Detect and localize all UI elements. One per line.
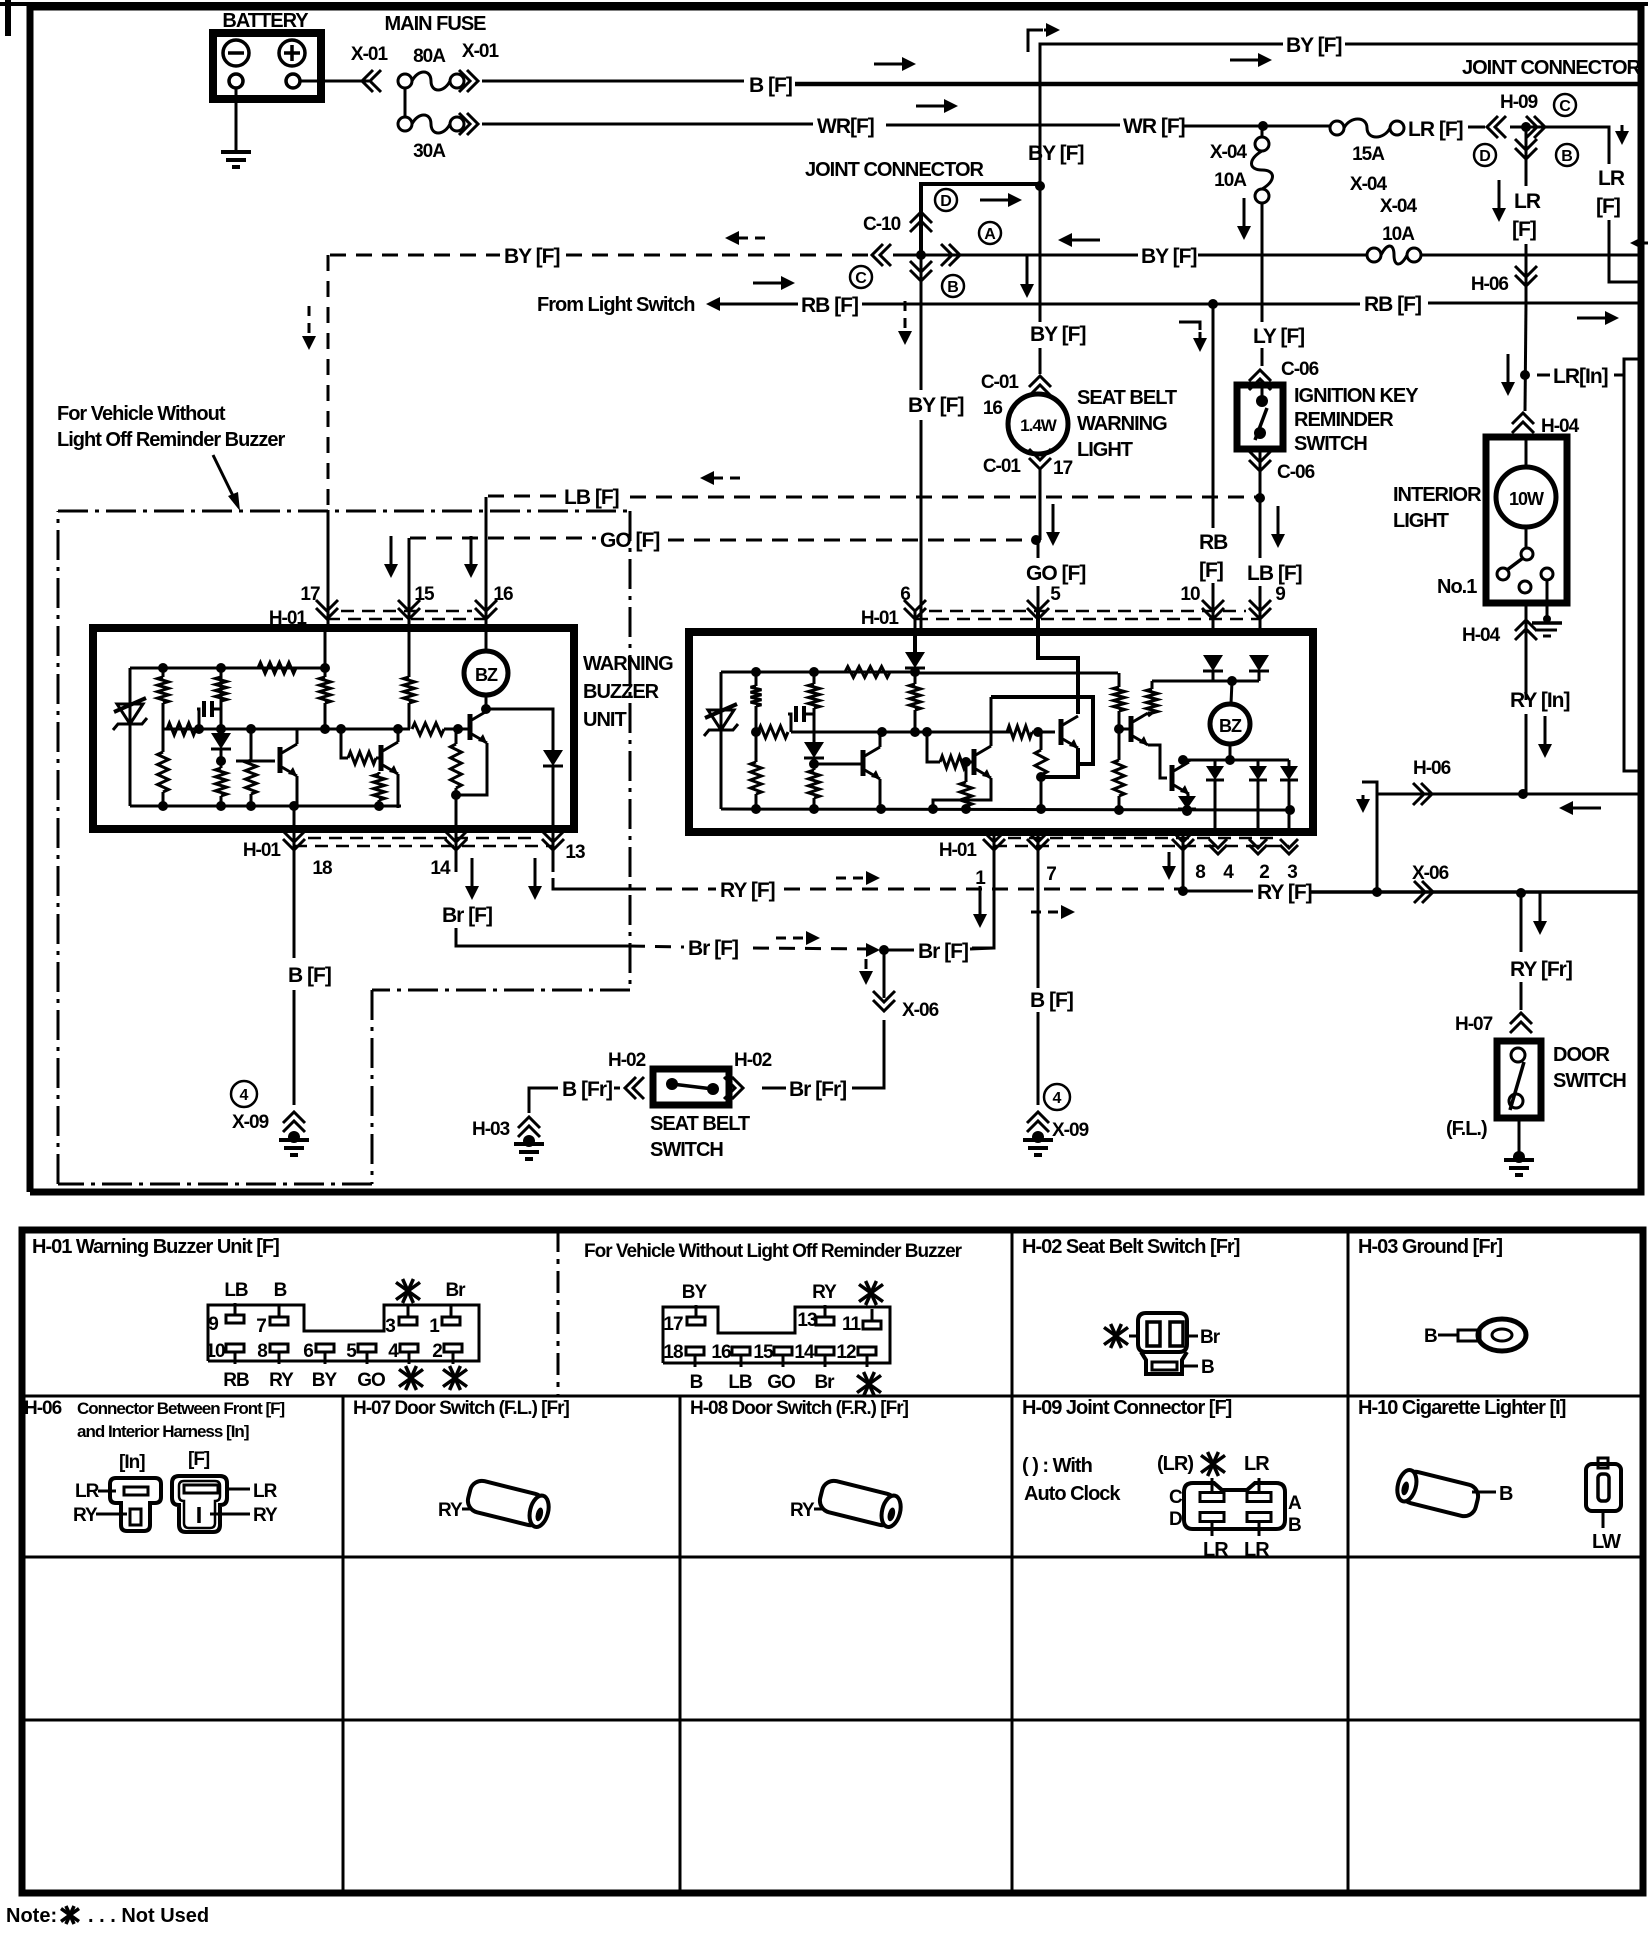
H-09 connector body [1184, 1483, 1285, 1529]
svg-text:X-01: X-01 [462, 41, 500, 62]
H-02 star [1104, 1324, 1140, 1348]
svg-text:BY [F]: BY [F] [1286, 34, 1341, 57]
arrow from light switch [706, 297, 760, 311]
svg-text:BZ: BZ [475, 665, 498, 685]
label H-01 bottom-right [939, 840, 978, 861]
label WARNING BUZZER UNIT [583, 653, 673, 731]
resistor R17 [809, 672, 820, 708]
svg-text:H-01: H-01 [269, 608, 308, 629]
wire qd base [1119, 728, 1129, 731]
H-01 pin2 [432, 1341, 467, 1390]
label IGNITION KEY REMINDER SWITCH [1294, 385, 1419, 455]
circled D (C-10) [935, 189, 957, 211]
diode D4 [804, 708, 824, 769]
wire BY main vertical [1039, 44, 1042, 374]
table grid [22, 1230, 1643, 1893]
svg-text:LR: LR [1203, 1539, 1229, 1561]
variant pin17 [663, 1282, 707, 1335]
svg-text:Br [Fr]: Br [Fr] [789, 1078, 846, 1101]
circled D (H-09) [1474, 144, 1496, 166]
svg-text:RY [F]: RY [F] [720, 879, 775, 902]
connector H-06 chevron right [1413, 783, 1432, 805]
svg-text:D: D [1169, 1509, 1182, 1530]
label H-02 left [608, 1050, 646, 1071]
label DOOR SWITCH [1553, 1044, 1626, 1092]
svg-text:SEAT BELT: SEAT BELT [1077, 387, 1177, 409]
connector H-07 [1455, 1013, 1532, 1035]
svg-text:H-07 Door Switch (F.L.) [Fr]: H-07 Door Switch (F.L.) [Fr] [353, 1398, 570, 1419]
svg-text:RB [F]: RB [F] [801, 294, 858, 317]
transistor QD [1131, 713, 1152, 745]
wire H-06 horizontal [1362, 782, 1641, 799]
table title H-06 [24, 1398, 285, 1441]
svg-text:H-01: H-01 [939, 840, 978, 861]
svg-text:BY [F]: BY [F] [1030, 323, 1085, 346]
wire qc base [1032, 731, 1055, 734]
svg-text:BY: BY [312, 1370, 338, 1391]
wire pin8 [1178, 832, 1188, 896]
resistor R25 [1147, 681, 1158, 716]
connector X-06 chevron [1414, 881, 1433, 903]
wire pin15 interior [404, 628, 415, 729]
wire BY to fuse2 [1198, 254, 1367, 257]
wire pin7 B [1030, 989, 1073, 1105]
svg-text:30A: 30A [413, 141, 446, 162]
svg-text:H-06: H-06 [24, 1398, 62, 1419]
wire C-10 down [920, 255, 923, 628]
svg-text:4: 4 [388, 1341, 399, 1362]
variant pin15 [753, 1342, 795, 1393]
svg-text:16: 16 [983, 398, 1003, 419]
connector H-09 right chevron [1526, 116, 1545, 138]
resistor R4 [167, 723, 196, 735]
svg-text:6: 6 [303, 1341, 313, 1362]
wire H-06 to X-06 link [1376, 794, 1379, 892]
svg-text:Note:: Note: [6, 1905, 57, 1927]
variant pin18 [663, 1342, 704, 1393]
svg-text:9: 9 [208, 1314, 218, 1335]
svg-text:7: 7 [1046, 864, 1056, 885]
H-01 pin4 [388, 1341, 423, 1390]
wire WR[F] mid [886, 115, 1185, 138]
wire Br to pin1 [888, 940, 994, 963]
table title H-08 [690, 1398, 909, 1419]
wire pin13 to RY [553, 878, 630, 889]
label No.1 [1437, 576, 1477, 598]
svg-text:No.1: No.1 [1437, 576, 1477, 598]
transistor QB [928, 697, 991, 814]
svg-text:H-07: H-07 [1455, 1014, 1493, 1035]
transistor QF [1172, 762, 1189, 794]
variant connector outline [663, 1307, 890, 1363]
svg-text:RY: RY [269, 1370, 294, 1391]
H-06 label In [119, 1452, 145, 1473]
svg-text:(LR): (LR) [1157, 1453, 1193, 1475]
H-02 label B [1182, 1357, 1214, 1378]
svg-text:For Vehicle Without Light Off: For Vehicle Without Light Off Reminder B… [584, 1241, 963, 1262]
connector H-06 mid [1471, 266, 1537, 295]
table title H-03 [1358, 1236, 1502, 1258]
ground (battery) [221, 152, 251, 167]
svg-text:A: A [1288, 1493, 1302, 1514]
wire WR[F] left [482, 115, 874, 138]
interior light internal ground [1532, 580, 1562, 636]
flow arrow Br dashed [776, 931, 820, 945]
bz bottom node right [1225, 744, 1235, 765]
svg-text:1: 1 [429, 1316, 440, 1337]
svg-text:WR[F]: WR[F] [817, 115, 874, 138]
label pin 10 [1180, 584, 1200, 605]
svg-text:X-01: X-01 [351, 44, 389, 65]
wire GO[F] dashed [410, 529, 1036, 552]
resistor R21 [1007, 726, 1043, 738]
label 14 [430, 858, 451, 879]
wire RB down [1212, 304, 1215, 610]
flow arrow RY dashed [836, 871, 880, 885]
table title H-10 [1358, 1397, 1566, 1419]
pin6 resistor R13 [910, 668, 921, 733]
svg-text:3: 3 [1287, 862, 1297, 883]
connector chevron C-10 up [910, 212, 932, 232]
flow arrow LR right [1615, 125, 1629, 145]
joint connector C-10 frame [921, 181, 1045, 255]
capacitor C2 [788, 706, 814, 732]
svg-text:Auto Clock: Auto Clock [1024, 1483, 1121, 1505]
label H-09 [1500, 92, 1538, 113]
resistor R20 [960, 762, 972, 814]
wire fuse junction [404, 88, 407, 117]
top rail (left) [130, 663, 326, 673]
H-06 connector F [172, 1476, 227, 1532]
fuse X-04 10A vertical [1210, 126, 1273, 203]
wire Br[F] dashed [629, 937, 873, 960]
svg-text:and Interior Harness [In]: and Interior Harness [In] [77, 1422, 249, 1441]
warning buzzer unit box (right) [689, 632, 1313, 832]
H-01 pin3 [385, 1279, 420, 1337]
flow arrow BY down pin6 [898, 301, 912, 345]
svg-text:H-04: H-04 [1462, 625, 1501, 646]
svg-text:H-02 Seat Belt Switch [Fr]: H-02 Seat Belt Switch [Fr] [1022, 1236, 1240, 1258]
wire pin15 drop [408, 538, 411, 628]
svg-text:RY: RY [790, 1500, 815, 1521]
flow arrow above 16 [464, 536, 478, 578]
resistor R6 [216, 761, 227, 808]
flow arrow RB [753, 276, 795, 290]
svg-text:X-06: X-06 [902, 1000, 939, 1021]
connector H-02 chevron left [625, 1077, 644, 1099]
wire B Fr [529, 1078, 620, 1113]
variant pin16 [711, 1342, 752, 1393]
table title H-02 [1022, 1236, 1240, 1258]
wire pin1 [972, 832, 994, 948]
circled 4 right [1044, 1084, 1070, 1110]
flow arrow X-04 down [1237, 198, 1251, 240]
svg-text:LY [F]: LY [F] [1253, 325, 1304, 348]
wire pin13 down [552, 829, 555, 872]
svg-text:15: 15 [414, 584, 435, 605]
connector X-06 (Br) [873, 991, 939, 1021]
label INTERIOR LIGHT [1393, 484, 1482, 532]
svg-text:C-01: C-01 [983, 456, 1022, 477]
seat belt switch box [653, 1069, 729, 1105]
svg-text:5: 5 [1050, 584, 1061, 605]
svg-text:17: 17 [1053, 458, 1073, 479]
H-07 plug [438, 1478, 552, 1529]
flow arrow RY Fr [1533, 893, 1547, 935]
wire Br Fr [762, 1020, 884, 1101]
circled C (H-09) [1554, 94, 1576, 116]
flow arrow BY mid [1058, 233, 1100, 247]
label SEAT BELT SWITCH [650, 1113, 750, 1161]
svg-text:3: 3 [385, 1316, 395, 1337]
diode D7 pin9 [1249, 655, 1269, 681]
svg-text:INTERIOR: INTERIOR [1393, 484, 1482, 506]
svg-text:2: 2 [1259, 862, 1269, 883]
label B[F] left [288, 964, 331, 987]
svg-text:[F]: [F] [1596, 195, 1620, 218]
label 16 (C-01) [983, 398, 1003, 419]
svg-text:C-01: C-01 [981, 372, 1020, 393]
label (F.L.) [1446, 1118, 1487, 1140]
label MAIN FUSE [385, 13, 487, 35]
connector chevron A right [941, 244, 960, 266]
wire LR[F] right branch [1545, 127, 1641, 282]
label LR [F] mid [1512, 190, 1541, 241]
label BY[F] under B [1028, 142, 1083, 165]
svg-text:15A: 15A [1352, 144, 1385, 165]
diode D10 [1280, 760, 1298, 832]
label Br[F] left [442, 904, 492, 927]
flow arrow Br X-06 [859, 959, 873, 985]
connector X-09 left [283, 1112, 305, 1132]
node line (left) [163, 724, 410, 734]
H-06 In labels [73, 1481, 127, 1526]
warning buzzer unit box (left) [93, 628, 574, 829]
wire bz to diode [486, 709, 553, 750]
label X-09 left [232, 1112, 269, 1133]
H-02 label Br [1187, 1327, 1221, 1348]
wire seat belt light down [1031, 468, 1041, 545]
svg-text:LR: LR [1598, 167, 1625, 190]
svg-text:JOINT CONNECTOR: JOINT CONNECTOR [1462, 57, 1642, 79]
buzzer BZ (right) [1210, 681, 1250, 744]
label H-06 right [1413, 758, 1451, 779]
svg-text:13: 13 [565, 842, 585, 863]
svg-text:SWITCH: SWITCH [1294, 433, 1367, 455]
svg-text:X-09: X-09 [232, 1112, 269, 1133]
label H-01 top-right [861, 608, 900, 629]
svg-text:UNIT: UNIT [583, 709, 626, 731]
connector H-09 left chevron [1487, 116, 1506, 138]
H-01 pin9 [208, 1280, 248, 1335]
svg-text:Br [F]: Br [F] [688, 937, 738, 960]
label GO[F] [1026, 562, 1085, 585]
label H-01 top-left [269, 608, 308, 629]
label RB[F] vert [1199, 531, 1228, 582]
connector X-01 left [351, 44, 389, 92]
wire RY solid right [1183, 881, 1377, 904]
H-06 label F [188, 1449, 210, 1470]
wire pin7 down [1037, 832, 1040, 988]
top rail (right) [721, 667, 1118, 678]
svg-text:LB: LB [224, 1280, 248, 1301]
label RY[Fr] [1510, 958, 1572, 981]
wire RY Fr down [1520, 893, 1523, 1010]
H-08 plug [790, 1478, 904, 1529]
resistor R14 [751, 672, 762, 737]
node line (right) [791, 727, 1010, 737]
svg-text:14: 14 [430, 858, 451, 879]
connector H-03 chevron [518, 1117, 540, 1137]
label 18 [312, 858, 332, 879]
svg-text:B [F]: B [F] [1030, 989, 1073, 1012]
svg-text:Br [F]: Br [F] [918, 940, 968, 963]
wire battery positive [300, 80, 369, 83]
H-01 pin5 [346, 1341, 385, 1391]
svg-text:10: 10 [1180, 584, 1200, 605]
variant pin13 [797, 1282, 837, 1331]
interior light bulb [1496, 437, 1556, 527]
wire RY In down [1525, 714, 1528, 794]
svg-text:2: 2 [432, 1341, 442, 1362]
transistor Q2 [376, 724, 403, 808]
circled B (C-10) [942, 275, 964, 297]
capacitor C1 [197, 701, 221, 729]
connector C-01 top [981, 372, 1051, 396]
svg-text:H-01: H-01 [861, 608, 900, 629]
wire RB[F] [760, 293, 1641, 317]
svg-text:C-10: C-10 [863, 214, 901, 235]
svg-text:LW: LW [1592, 1531, 1621, 1553]
label pin 6 [900, 584, 910, 605]
fuse 15A X-04 [1330, 119, 1404, 195]
svg-text:(F.L.): (F.L.) [1446, 1118, 1487, 1140]
svg-text:LR: LR [253, 1481, 278, 1502]
svg-text:1: 1 [975, 868, 986, 889]
flow arrow RY In [1538, 716, 1552, 758]
variant pin14 [794, 1342, 835, 1393]
svg-text:H-03 Ground [Fr]: H-03 Ground [Fr] [1358, 1236, 1502, 1258]
node q3 base [444, 724, 468, 734]
ground (H-03) [514, 1135, 544, 1159]
H-03 ring terminal [1424, 1319, 1526, 1351]
zener diode ZD1 [113, 668, 147, 806]
flow arrow pin1 [973, 886, 987, 928]
resistor R15 [758, 726, 788, 738]
wire pin14 down [455, 829, 458, 872]
svg-text:B: B [947, 279, 959, 296]
resistor R2 [158, 668, 169, 729]
pin5 bold path [1038, 610, 1078, 714]
svg-text:10: 10 [205, 1341, 225, 1362]
svg-text:15: 15 [753, 1342, 774, 1363]
H-02 connector drawing [1138, 1313, 1187, 1374]
table title For Vehicle [584, 1241, 963, 1262]
H-10 plug [1394, 1468, 1513, 1519]
connector C-06 bottom [1249, 451, 1315, 483]
label LY[F] [1253, 325, 1304, 348]
svg-text:RB [F]: RB [F] [1364, 293, 1421, 316]
flow arrow BY dashed [725, 231, 769, 245]
flow arrow pin17 [302, 306, 316, 350]
arrow bend top [1028, 23, 1060, 52]
svg-text:WARNING: WARNING [1077, 413, 1167, 435]
svg-text:RB: RB [223, 1370, 249, 1391]
svg-text:B: B [274, 1280, 287, 1301]
svg-text:RY: RY [253, 1505, 278, 1526]
svg-text:D: D [940, 193, 952, 210]
connector C-06 top [1249, 359, 1319, 390]
svg-text:5: 5 [346, 1341, 357, 1362]
flow arrow C-10 [980, 193, 1022, 207]
svg-text:H-02: H-02 [734, 1050, 772, 1071]
wire pin10 drop [1212, 610, 1215, 632]
flow arrow pin13 [528, 858, 542, 900]
wire LY down from fuse [1261, 203, 1264, 366]
svg-text:B [Fr]: B [Fr] [562, 1078, 612, 1101]
svg-text:X-09: X-09 [1052, 1120, 1089, 1141]
svg-text:H-06: H-06 [1413, 758, 1451, 779]
svg-text:RY [F]: RY [F] [1257, 881, 1312, 904]
svg-text:16: 16 [711, 1342, 731, 1363]
label pin 4 [1223, 862, 1234, 883]
flow arrow GO down [1046, 504, 1060, 546]
flow arrow LB down [1271, 506, 1285, 548]
wire pin9 drop [1259, 610, 1262, 632]
wire BY[F] mid [893, 245, 1196, 268]
svg-text:B [F]: B [F] [288, 964, 331, 987]
fuse 80A [398, 46, 464, 90]
wire BY[F] top [1040, 34, 1641, 255]
flow arrow RY dash right [1031, 905, 1075, 919]
resistor R11 [412, 723, 444, 735]
flow arrow WR [916, 99, 958, 113]
wire WR[F] to fuse [1182, 121, 1330, 131]
wire RY[F] dashed [630, 879, 1183, 902]
seat belt warning light bulb [1008, 394, 1068, 454]
svg-text:B: B [1424, 1326, 1437, 1347]
svg-text:IGNITION KEY: IGNITION KEY [1294, 385, 1419, 407]
label LR[F] top [1408, 118, 1463, 141]
svg-text:H-08 Door Switch (F.R.) [Fr]: H-08 Door Switch (F.R.) [Fr] [690, 1398, 909, 1419]
diagram outer border [0, 0, 1648, 1192]
wire LR[In] node [1520, 303, 1530, 411]
svg-text:9: 9 [1275, 584, 1285, 605]
ground (door switch) [1504, 1151, 1534, 1175]
svg-text:H-10 Cigarette Lighter [I]: H-10 Cigarette Lighter [I] [1358, 1397, 1566, 1419]
H-06 connector In [110, 1478, 161, 1531]
label 13 [565, 842, 585, 863]
node H-09 [1510, 122, 1545, 132]
resistor R12 [451, 729, 462, 795]
diode D8 [1206, 760, 1224, 832]
connector H-04 top [1512, 413, 1580, 437]
wire LR[F] to H-09 [1468, 126, 1485, 129]
svg-text:RY [In]: RY [In] [1510, 689, 1570, 712]
node Br junction [866, 943, 889, 957]
svg-text:10A: 10A [1382, 224, 1415, 245]
svg-text:B: B [1561, 148, 1573, 165]
svg-text:For Vehicle Without: For Vehicle Without [57, 403, 226, 425]
label pin 7 [1046, 864, 1056, 885]
interior light box [1486, 437, 1567, 603]
label C-10 [863, 214, 901, 235]
svg-text:LIGHT: LIGHT [1077, 439, 1133, 461]
label pin 2 [1259, 862, 1269, 883]
bold link QB-QC [991, 697, 1093, 764]
wire qf collector [1188, 760, 1191, 762]
svg-text:17: 17 [663, 1314, 683, 1335]
